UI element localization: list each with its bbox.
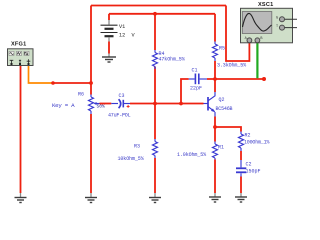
svg-text:R5: R5 bbox=[219, 46, 225, 52]
node base R4 junction bbox=[153, 102, 157, 106]
svg-text:B: B bbox=[260, 37, 262, 41]
resistor R3 bbox=[153, 139, 158, 158]
svg-text:R3: R3 bbox=[134, 144, 140, 150]
wire collector node down bbox=[214, 79, 216, 92]
ground R1 bbox=[209, 193, 221, 202]
wire R4 top drop bbox=[154, 14, 156, 50]
ground pot bbox=[85, 193, 97, 203]
wire XFG1 right terminal orange segment bbox=[29, 66, 54, 84]
svg-text:47uF-POL: 47uF-POL bbox=[108, 113, 131, 119]
svg-text:G: G bbox=[276, 17, 278, 21]
capacitor C3 bbox=[111, 99, 130, 108]
svg-text:BC546B: BC546B bbox=[216, 106, 233, 112]
wire emitter node to R1 bbox=[214, 127, 216, 142]
wire C3 to transistor base bbox=[130, 103, 204, 105]
wire R2 bottom to C2 bbox=[240, 151, 242, 160]
svg-text:XFG1: XFG1 bbox=[11, 42, 26, 48]
svg-text:3.3kOhm_5%: 3.3kOhm_5% bbox=[217, 63, 246, 69]
svg-text:150pF: 150pF bbox=[246, 169, 261, 175]
node output end bbox=[262, 77, 266, 81]
resistor R5 bbox=[213, 42, 218, 62]
capacitor C1 bbox=[189, 74, 207, 85]
wire battery bottom to ground bbox=[108, 42, 110, 54]
battery V1 bbox=[101, 20, 136, 42]
ground C2 bbox=[235, 193, 247, 202]
wire R5 bottom to collector node bbox=[214, 61, 216, 79]
wire base node down to R3 bbox=[154, 104, 156, 140]
transistor Q2 bbox=[204, 92, 216, 117]
svg-text:22pF: 22pF bbox=[190, 86, 202, 92]
svg-text:C2: C2 bbox=[246, 162, 252, 168]
wire R5 top bbox=[214, 14, 216, 42]
wire R1 bottom to ground bbox=[214, 160, 216, 194]
wire scope channel B green bbox=[256, 43, 258, 79]
wire pot bottom to ground bbox=[90, 114, 92, 193]
svg-text:R2: R2 bbox=[245, 133, 251, 139]
wire orange to signal node red segment bbox=[53, 82, 91, 84]
svg-text:XSC1: XSC1 bbox=[258, 2, 273, 8]
resistor R2 bbox=[239, 132, 244, 152]
wire R3 bottom to ground bbox=[154, 158, 156, 193]
wire input rail top bbox=[91, 5, 226, 7]
ground R3 bbox=[149, 193, 161, 203]
node VCC R4 junction bbox=[153, 12, 157, 16]
wire VCC rail bbox=[109, 13, 215, 15]
ground XFG1 bbox=[15, 193, 27, 203]
wire pot wiper to C3 bbox=[100, 103, 112, 105]
oscilloscope XSC1 bbox=[241, 8, 298, 43]
ground under battery bbox=[102, 54, 116, 63]
svg-text:T: T bbox=[276, 25, 278, 29]
wire battery top drop bbox=[108, 14, 110, 20]
function generator XFG1 bbox=[8, 49, 34, 66]
svg-text:R1: R1 bbox=[218, 145, 224, 151]
svg-text:12 V: 12 V bbox=[119, 33, 135, 39]
resistor R4 bbox=[153, 50, 158, 69]
svg-text:V1: V1 bbox=[119, 24, 125, 30]
wire collector rail to output bbox=[207, 78, 264, 80]
wire C2 bottom to ground bbox=[240, 177, 242, 194]
wire R4 bottom to base node bbox=[154, 67, 156, 104]
svg-text:100Ohm_1%: 100Ohm_1% bbox=[244, 140, 269, 146]
potentiometer R6 bbox=[89, 95, 100, 115]
svg-text:C1: C1 bbox=[192, 68, 198, 74]
node junction orange-red bbox=[51, 81, 55, 85]
svg-text:C3: C3 bbox=[119, 93, 125, 99]
wire scope channel A link bbox=[226, 6, 249, 62]
node emitter junction bbox=[213, 125, 217, 129]
node base C1 junction bbox=[179, 102, 183, 106]
wire emitter node to R2 bbox=[215, 127, 241, 132]
capacitor C2 bbox=[236, 160, 246, 177]
svg-text:R6: R6 bbox=[78, 92, 84, 98]
svg-text:10kOhm_5%: 10kOhm_5% bbox=[118, 156, 144, 162]
svg-text:1.0kOhm_5%: 1.0kOhm_5% bbox=[177, 152, 206, 158]
svg-text:47kOhm_5%: 47kOhm_5% bbox=[159, 57, 185, 63]
svg-text:50%: 50% bbox=[97, 104, 106, 110]
wire XFG1 middle terminal down bbox=[20, 66, 22, 194]
resistor R1 bbox=[213, 142, 218, 160]
svg-text:Key = A: Key = A bbox=[52, 102, 75, 109]
node signal junction bbox=[89, 81, 93, 85]
wire left vertical from rail to signal node bbox=[90, 6, 92, 95]
svg-text:Q2: Q2 bbox=[219, 97, 225, 103]
node collector junction bbox=[213, 77, 217, 81]
wire emitter down bbox=[214, 117, 216, 128]
wire C1 left branch bbox=[181, 79, 189, 104]
